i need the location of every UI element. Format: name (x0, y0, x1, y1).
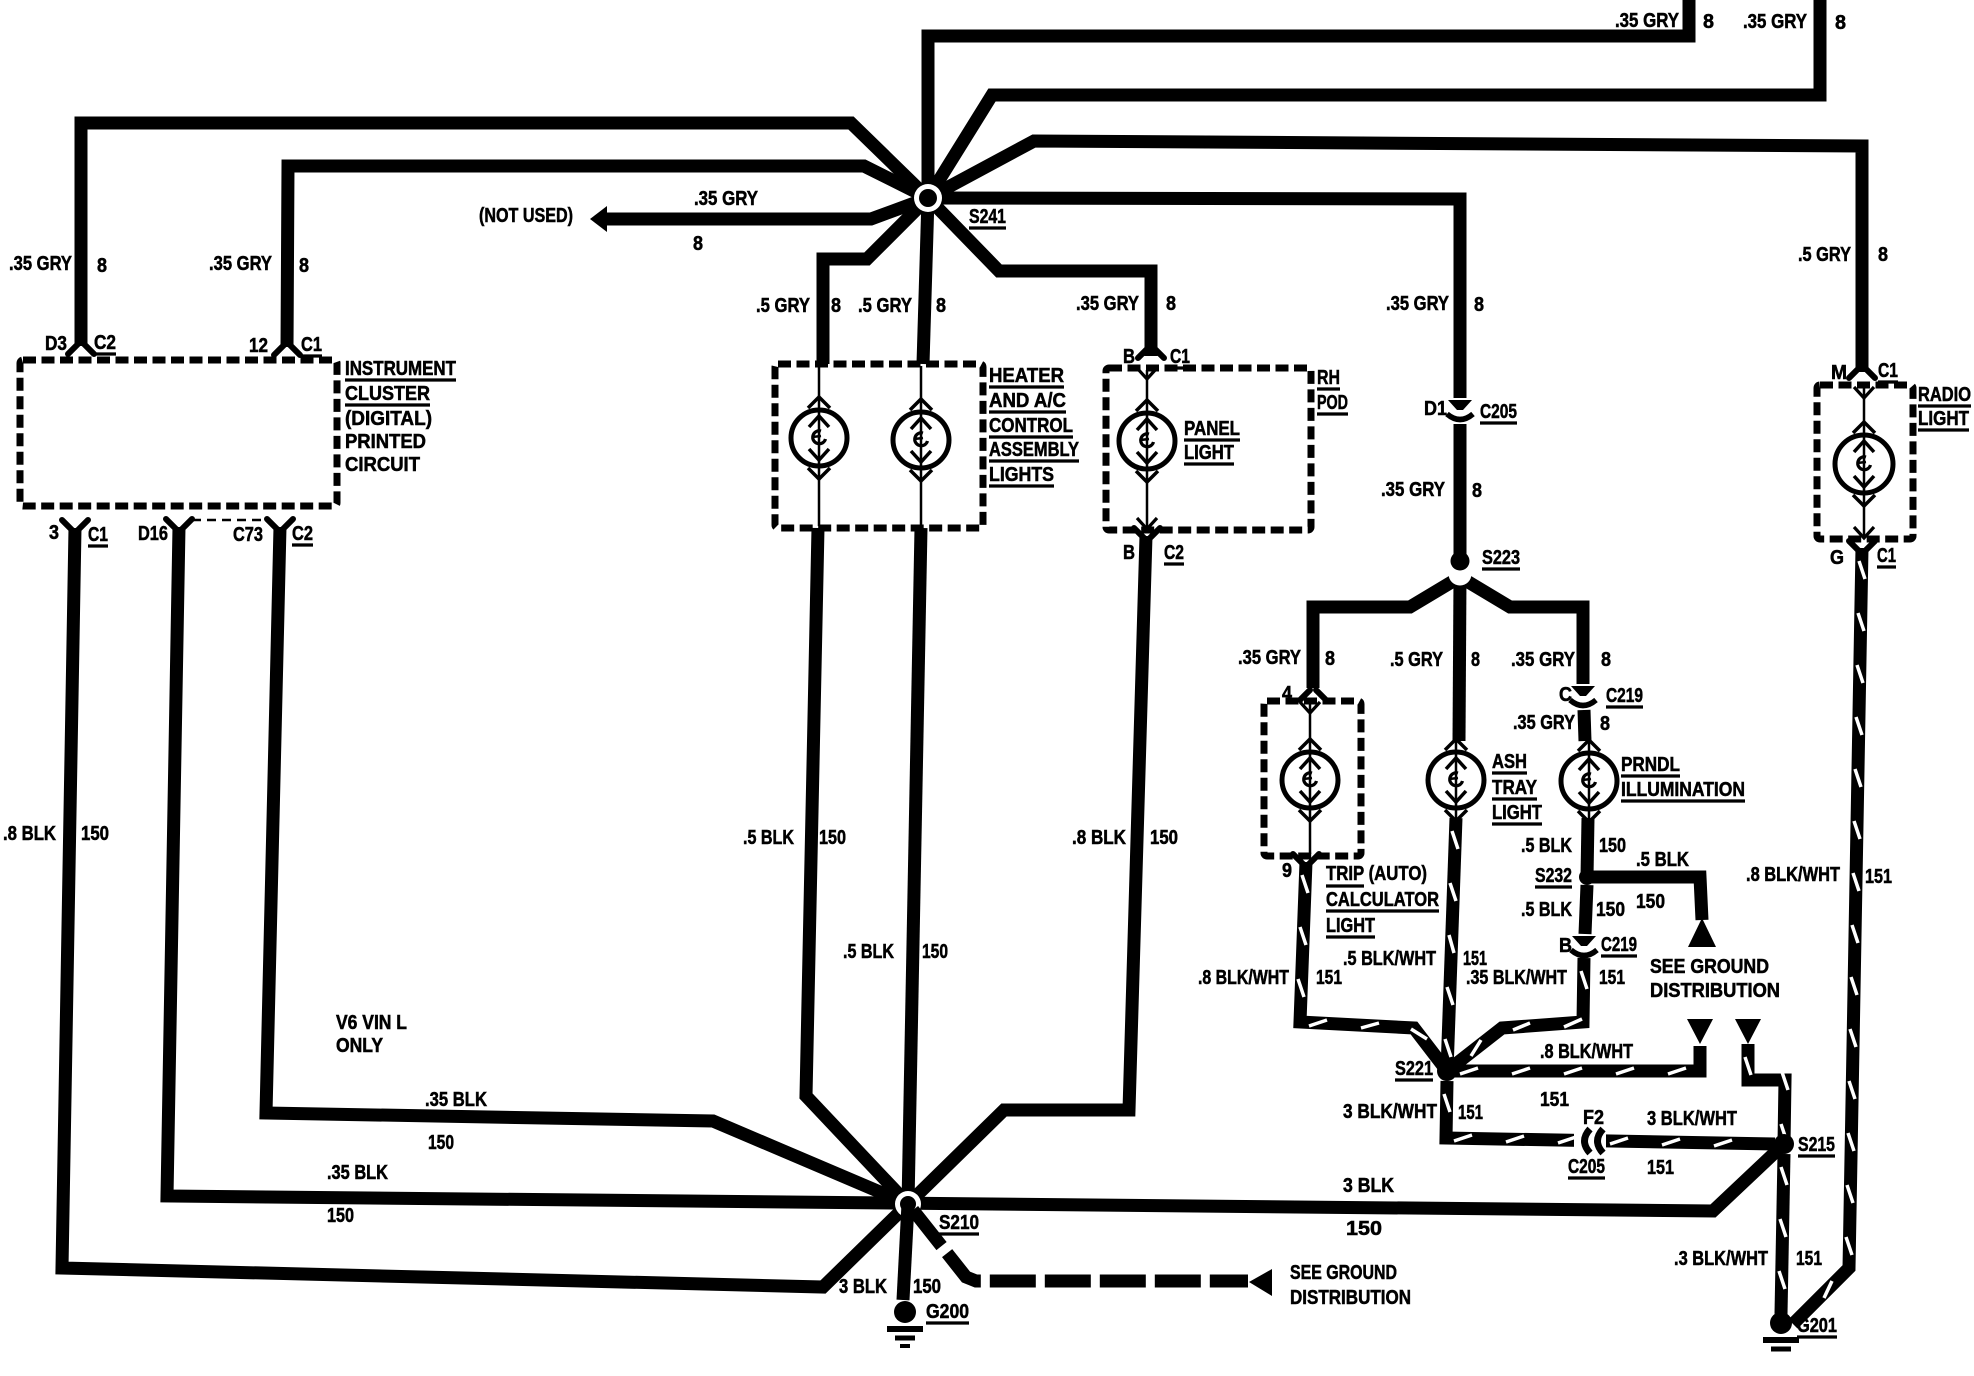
svg-text:S232: S232 (1535, 865, 1572, 887)
svg-text:F2: F2 (1583, 1107, 1604, 1129)
svg-text:151: 151 (1599, 967, 1625, 989)
svg-text:.5 GRY: .5 GRY (1798, 244, 1852, 266)
wire cluster pin 3 C1 to S210 (.8 BLK circuit 150) (62, 528, 908, 1287)
thin dashed link between D16 and C73 terminals (192, 519, 267, 522)
RH pod box (1106, 368, 1311, 530)
wire S241 to instrument cluster pin 12 C1 (.35 GRY circuit 8) (287, 166, 928, 347)
wire S210 south to G200 (3 BLK circuit 150) (903, 1204, 908, 1300)
wire C205 to S223 (.35 GRY circuit 8) (1454, 424, 1467, 556)
svg-text:PRINTED: PRINTED (345, 431, 426, 453)
svg-text:C219: C219 (1601, 934, 1637, 956)
radio light bulb (1835, 435, 1893, 493)
svg-text:8: 8 (1703, 11, 1714, 33)
svg-text:.35 GRY: .35 GRY (1238, 647, 1302, 669)
svg-text:8: 8 (1601, 649, 1611, 671)
svg-text:ASH: ASH (1492, 751, 1527, 773)
connector terminal pin 4 (trip calculator) (1300, 690, 1310, 700)
wire PRNDL bulb to S232 (.5 BLK circuit 150) (1587, 818, 1588, 877)
triangle to ground distribution (S232 branch) (1688, 918, 1716, 947)
wire S223 to trip calculator pin 4 (.35 GRY circuit 8) (1313, 577, 1460, 688)
wire S241 west NOT USED (.35 GRY circuit 8) (605, 198, 928, 219)
wire S241 to radio light M C1 (.5 GRY circuit 8) (928, 141, 1862, 372)
svg-text:RH: RH (1317, 367, 1340, 389)
svg-text:.5 GRY: .5 GRY (858, 295, 913, 317)
svg-text:PANEL: PANEL (1184, 418, 1240, 440)
svg-text:AND A/C: AND A/C (989, 390, 1066, 412)
trip calculator box (1264, 701, 1361, 856)
wire heater left bulb to S210 (.5 BLK circuit 150) (806, 528, 908, 1204)
ash tray light bulb (1428, 752, 1484, 808)
svg-text:.5 BLK: .5 BLK (1521, 835, 1572, 857)
svg-text:150: 150 (922, 941, 948, 963)
svg-text:C1: C1 (88, 524, 108, 546)
svg-text:C: C (1559, 684, 1572, 706)
svg-text:12: 12 (249, 335, 268, 357)
svg-text:(DIGITAL): (DIGITAL) (345, 408, 432, 430)
svg-text:.5 BLK: .5 BLK (1521, 899, 1572, 921)
svg-text:.35 GRY: .35 GRY (209, 253, 273, 275)
splice S221 (1437, 1061, 1457, 1081)
instrument cluster (digital) printed circuit box (20, 360, 337, 506)
svg-text:TRIP (AUTO): TRIP (AUTO) (1326, 863, 1427, 885)
svg-text:.35 GRY: .35 GRY (1511, 649, 1576, 671)
svg-text:.5 BLK: .5 BLK (843, 941, 894, 963)
svg-text:.35 GRY: .35 GRY (1513, 712, 1576, 734)
splice S223 (1449, 563, 1472, 586)
svg-text:C205: C205 (1480, 401, 1517, 423)
svg-text:C73: C73 (233, 524, 263, 546)
svg-text:S215: S215 (1798, 1134, 1835, 1156)
splice S232 (1579, 869, 1595, 885)
svg-text:SEE GROUND: SEE GROUND (1650, 956, 1769, 978)
svg-text:.8 BLK: .8 BLK (3, 823, 56, 845)
connector 3 C1 terminal (62, 520, 72, 530)
svg-text:.35 BLK: .35 BLK (327, 1162, 388, 1184)
wire trip calculator pin 9 to S221 (.8 BLK/WHT circuit 151) (1300, 862, 1447, 1071)
svg-text:3 BLK: 3 BLK (839, 1276, 887, 1298)
wire heater right bulb to S210 (.5 BLK circuit 150) (908, 528, 921, 1204)
svg-text:LIGHT: LIGHT (1184, 442, 1234, 464)
svg-text:150: 150 (1596, 899, 1625, 921)
svg-text:.35 BLK: .35 BLK (425, 1089, 487, 1111)
arrowhead see ground distribution (1249, 1269, 1272, 1296)
svg-text:.8 BLK: .8 BLK (1072, 827, 1126, 849)
trip calculator bulb (1282, 752, 1338, 808)
connector C205 pin D1 (in-line) (1448, 400, 1472, 410)
svg-text:150: 150 (1346, 1218, 1382, 1240)
svg-text:.35 GRY: .35 GRY (1381, 479, 1446, 501)
svg-text:.35 GRY: .35 GRY (1743, 11, 1808, 33)
wire cluster pin D16 through S210 to S215 (3 BLK circuit 150) (167, 527, 1784, 1211)
svg-text:D3: D3 (45, 333, 67, 355)
svg-text:8: 8 (1835, 12, 1846, 34)
connector C219 pin B (in-line) (1572, 936, 1596, 946)
svg-text:B: B (1123, 542, 1135, 564)
svg-text:ASSEMBLY: ASSEMBLY (989, 439, 1080, 461)
svg-text:C2: C2 (292, 523, 313, 545)
splice S215 (1774, 1134, 1794, 1154)
svg-text:G: G (1830, 547, 1844, 569)
svg-text:C1: C1 (1878, 360, 1898, 382)
svg-text:.3 BLK/WHT: .3 BLK/WHT (1674, 1248, 1768, 1270)
svg-text:8: 8 (693, 233, 703, 255)
svg-text:.35 GRY: .35 GRY (1386, 293, 1450, 315)
triangle from ground distribution to S215 (1735, 1019, 1761, 1044)
svg-text:9: 9 (1282, 860, 1292, 882)
connector G C1 terminal (radio) (1849, 541, 1859, 551)
svg-text:.5 GRY: .5 GRY (756, 295, 811, 317)
svg-text:.8 BLK/WHT: .8 BLK/WHT (1198, 967, 1289, 989)
svg-text:151: 151 (1540, 1089, 1569, 1111)
triangle to ground distribution (S221 branch) (1687, 1019, 1713, 1044)
svg-text:151: 151 (1796, 1248, 1822, 1270)
svg-text:3 BLK/WHT: 3 BLK/WHT (1343, 1101, 1437, 1123)
fuse F2 connector C205 (in-line horizontal) (1574, 1126, 1606, 1156)
svg-text:150: 150 (1636, 891, 1665, 913)
svg-text:151: 151 (1865, 866, 1892, 888)
ground G200 (894, 1301, 916, 1323)
wire S241 east to connector C205 (.35 GRY circuit 8) (928, 198, 1460, 398)
svg-text:ILLUMINATION: ILLUMINATION (1621, 779, 1745, 801)
PRNDL illumination bulb (1561, 753, 1617, 809)
svg-text:LIGHT: LIGHT (1492, 802, 1542, 824)
svg-text:HEATER: HEATER (989, 365, 1065, 387)
svg-text:150: 150 (81, 823, 109, 845)
svg-text:B: B (1559, 935, 1572, 957)
svg-text:151: 151 (1458, 1102, 1483, 1124)
svg-text:8: 8 (831, 295, 841, 317)
svg-text:150: 150 (819, 827, 846, 849)
wire S232 to ground distribution triangle (.5 BLK circuit 150) (1587, 877, 1702, 920)
svg-text:C2: C2 (1164, 542, 1184, 564)
heater lights right bulb (893, 412, 949, 468)
svg-text:.8 BLK/WHT: .8 BLK/WHT (1540, 1041, 1633, 1063)
svg-text:G200: G200 (926, 1301, 969, 1323)
svg-text:C205: C205 (1568, 1156, 1605, 1178)
svg-text:S210: S210 (939, 1212, 979, 1234)
svg-text:151: 151 (1316, 967, 1342, 989)
svg-text:8: 8 (1325, 648, 1335, 670)
wire radio G C1 to G201 (.8 BLK/WHT circuit 151) (1793, 548, 1862, 1324)
svg-text:150: 150 (428, 1132, 454, 1154)
svg-text:POD: POD (1317, 392, 1348, 414)
svg-text:.8 BLK/WHT: .8 BLK/WHT (1746, 864, 1840, 886)
svg-text:S221: S221 (1395, 1058, 1433, 1080)
svg-text:D1: D1 (1424, 398, 1447, 420)
wire RH pod B C2 to S210 (.8 BLK circuit 150) (908, 536, 1146, 1204)
wire ash tray light to S221 (.5 BLK/WHT circuit 151) (1447, 818, 1456, 1071)
connector B C2 terminal (RH pod) (1134, 528, 1144, 538)
heater and A/C control assembly lights box (775, 364, 983, 528)
wire S223 to ash tray light (.5 GRY circuit 8) (1459, 577, 1460, 741)
svg-text:M: M (1831, 362, 1847, 384)
connector B C1 terminal (RH pod) (1138, 348, 1148, 358)
svg-text:8: 8 (97, 255, 107, 277)
svg-text:RADIO: RADIO (1918, 384, 1971, 406)
svg-text:8: 8 (299, 255, 309, 277)
svg-text:.5 BLK: .5 BLK (1636, 849, 1689, 871)
svg-text:150: 150 (1599, 835, 1626, 857)
connector D3 C2 terminal (68, 344, 78, 354)
svg-text:(NOT USED): (NOT USED) (479, 205, 573, 227)
wire C219 to PRNDL bulb (.35 GRY circuit 8) (1584, 710, 1585, 741)
svg-text:C2: C2 (94, 332, 116, 354)
svg-text:DISTRIBUTION: DISTRIBUTION (1650, 980, 1780, 1002)
radio light box (1817, 385, 1913, 539)
svg-text:C1: C1 (1877, 545, 1896, 567)
svg-text:.35 GRY: .35 GRY (694, 188, 759, 210)
panel light bulb (1119, 413, 1175, 469)
svg-text:150: 150 (1150, 827, 1178, 849)
wire S223 to connector C219 pin C (.35 GRY circuit 8) (1460, 577, 1583, 684)
svg-text:.5 GRY: .5 GRY (1390, 649, 1444, 671)
svg-text:.35 GRY: .35 GRY (1615, 10, 1680, 32)
svg-text:V6 VIN L: V6 VIN L (336, 1012, 407, 1034)
svg-text:TRAY: TRAY (1492, 777, 1538, 799)
splice S210 (895, 1191, 921, 1217)
svg-text:DISTRIBUTION: DISTRIBUTION (1290, 1287, 1411, 1309)
arrowhead NOT USED (590, 206, 607, 232)
svg-text:.35 GRY: .35 GRY (1076, 293, 1140, 315)
splice S241 (914, 184, 942, 212)
wire S241 southeast to RH pod B C1 (.35 GRY circuit 8) (928, 198, 1151, 356)
wire S241 to top edge second (.35 GRY circuit 8) (928, 0, 1820, 198)
svg-text:150: 150 (327, 1205, 354, 1227)
svg-text:.5 BLK: .5 BLK (743, 827, 794, 849)
svg-text:CONTROL: CONTROL (989, 415, 1073, 437)
svg-text:CLUSTER: CLUSTER (345, 383, 430, 405)
connector C73 C2 terminal (267, 519, 277, 529)
svg-text:.5 BLK/WHT: .5 BLK/WHT (1343, 948, 1436, 970)
svg-text:LIGHTS: LIGHTS (989, 464, 1054, 486)
svg-text:8: 8 (1878, 244, 1888, 266)
svg-text:C1: C1 (301, 334, 322, 356)
svg-text:3: 3 (49, 522, 59, 544)
svg-text:SEE GROUND: SEE GROUND (1290, 1262, 1397, 1284)
wire S241 southwest to heater lights left bulb (.5 GRY circuit 8) (823, 198, 928, 364)
wire C219 pin B to S221 (.35 BLK/WHT circuit 151) (1447, 958, 1584, 1071)
svg-text:CALCULATOR: CALCULATOR (1326, 889, 1439, 911)
svg-text:8: 8 (1474, 294, 1484, 316)
ground G201 (1770, 1312, 1792, 1334)
svg-text:C219: C219 (1606, 685, 1643, 707)
svg-text:CIRCUIT: CIRCUIT (345, 454, 420, 476)
svg-text:INSTRUMENT: INSTRUMENT (345, 358, 456, 380)
svg-text:8: 8 (936, 295, 946, 317)
wire S215 to G201 (.3 BLK/WHT circuit 151) (1781, 1154, 1784, 1314)
wire S232 to connector C219 pin B (.5 BLK circuit 150) (1585, 885, 1587, 934)
connector terminal pin 9 (trip calculator) (1293, 854, 1303, 864)
svg-text:ONLY: ONLY (336, 1035, 384, 1057)
svg-text:D16: D16 (138, 523, 168, 545)
connector D16 terminal (166, 519, 176, 529)
wire S221 east to ground distribution triangle (.8 BLK/WHT circuit 151) (1447, 1046, 1700, 1071)
svg-text:.35 GRY: .35 GRY (9, 253, 73, 275)
wire S241 to instrument cluster pin D3 C2 (.35 GRY circuit 8) (81, 123, 928, 346)
svg-text:151: 151 (1647, 1157, 1674, 1179)
svg-text:LIGHT: LIGHT (1918, 408, 1969, 430)
connector M C1 terminal (radio) (1849, 368, 1859, 378)
wire S221 south through F2 C205 to S215 (3 BLK/WHT circuit 151) (1446, 1081, 1775, 1144)
wire cluster pin C73 C2 to S210 (.35 BLK circuit 150) (266, 527, 908, 1204)
svg-text:8: 8 (1471, 649, 1480, 671)
wire S241 south to heater lights right bulb (.5 GRY circuit 8) (923, 198, 928, 364)
connector 12 C1 terminal (274, 345, 284, 355)
svg-text:S223: S223 (1482, 547, 1520, 569)
svg-text:S241: S241 (969, 206, 1006, 228)
svg-text:LIGHT: LIGHT (1326, 915, 1375, 937)
svg-text:3 BLK: 3 BLK (1343, 1175, 1394, 1197)
wire S241 north to top edge (.35 GRY circuit 8) (928, 0, 1689, 198)
connector C219 pin C (in-line) (1571, 686, 1595, 696)
svg-text:8: 8 (1600, 713, 1610, 735)
svg-text:8: 8 (1472, 480, 1482, 502)
svg-text:.35 BLK/WHT: .35 BLK/WHT (1466, 967, 1567, 989)
svg-text:PRNDL: PRNDL (1621, 754, 1680, 776)
dashed wire S210 to ground distribution arrow (913, 1210, 1248, 1281)
wire triangle to S215 (.8 BLK/WHT) (1748, 1044, 1785, 1144)
svg-text:150: 150 (913, 1276, 941, 1298)
svg-text:3 BLK/WHT: 3 BLK/WHT (1647, 1108, 1737, 1130)
svg-text:8: 8 (1166, 293, 1176, 315)
heater lights left bulb (791, 410, 847, 466)
